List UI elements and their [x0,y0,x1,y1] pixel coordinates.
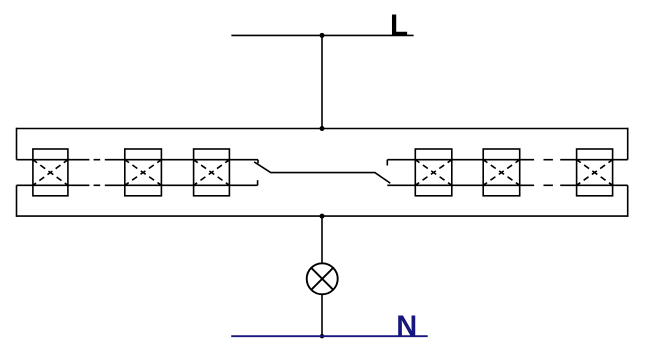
wire upper run break dash (between JB1 and JB2) [94,159,101,161]
junction dot on N line [320,334,324,338]
junction box JB4 [415,149,452,196]
wire bottom rail to lamp [321,216,323,263]
junction dot on bottom rail [320,214,325,219]
wire top rail [17,128,628,130]
wire upper run right section [387,159,534,161]
wire lower run right section [387,184,534,186]
wire left end rise (lower run to bottom rail) [16,185,18,217]
wire upper run to switch contact [105,159,258,161]
junction box JB1 [33,149,68,196]
junction dot on top rail [320,126,325,131]
junction box JB3 [194,149,230,196]
wire upper run to right end [560,159,628,161]
wire upper run break dash (between JB5 and JB6) [544,159,553,161]
wire N neutral line (blue) [231,335,428,337]
wire lower run break dash (between JB1 and JB2) [94,184,101,186]
wire right end rise (lower run to bottom rail) [627,185,629,217]
lamp EL1 (circle with X) [307,263,338,294]
wire left end drop (top rail to upper run) [16,128,18,160]
wire L feeder (top horizontal line) [231,34,413,36]
junction box JB5 [483,149,520,196]
junction box JB6 [577,149,613,196]
wire lower run to open contact [105,184,258,186]
wire bottom rail [17,215,628,217]
switch S1 left upper fixed contact tick [257,160,259,164]
junction dot on L line [320,33,325,38]
wire lamp to N line [321,294,323,336]
switch S1 right upper open contact tick [386,160,388,166]
svg-text:L: L [390,9,408,42]
switch S1 left lower open contact tick [257,180,259,185]
wire lower run break dash (between JB5 and JB6) [544,184,553,186]
wire lower run left section [17,184,90,186]
wire from L down to top rail [321,35,323,128]
wire right end drop (top rail to upper run) [627,128,629,160]
wire lower run to right end [560,184,628,186]
switch S1 blade [254,162,390,183]
wire upper run left section [17,159,90,161]
svg-text:N: N [396,311,417,343]
junction box JB2 [125,149,162,196]
